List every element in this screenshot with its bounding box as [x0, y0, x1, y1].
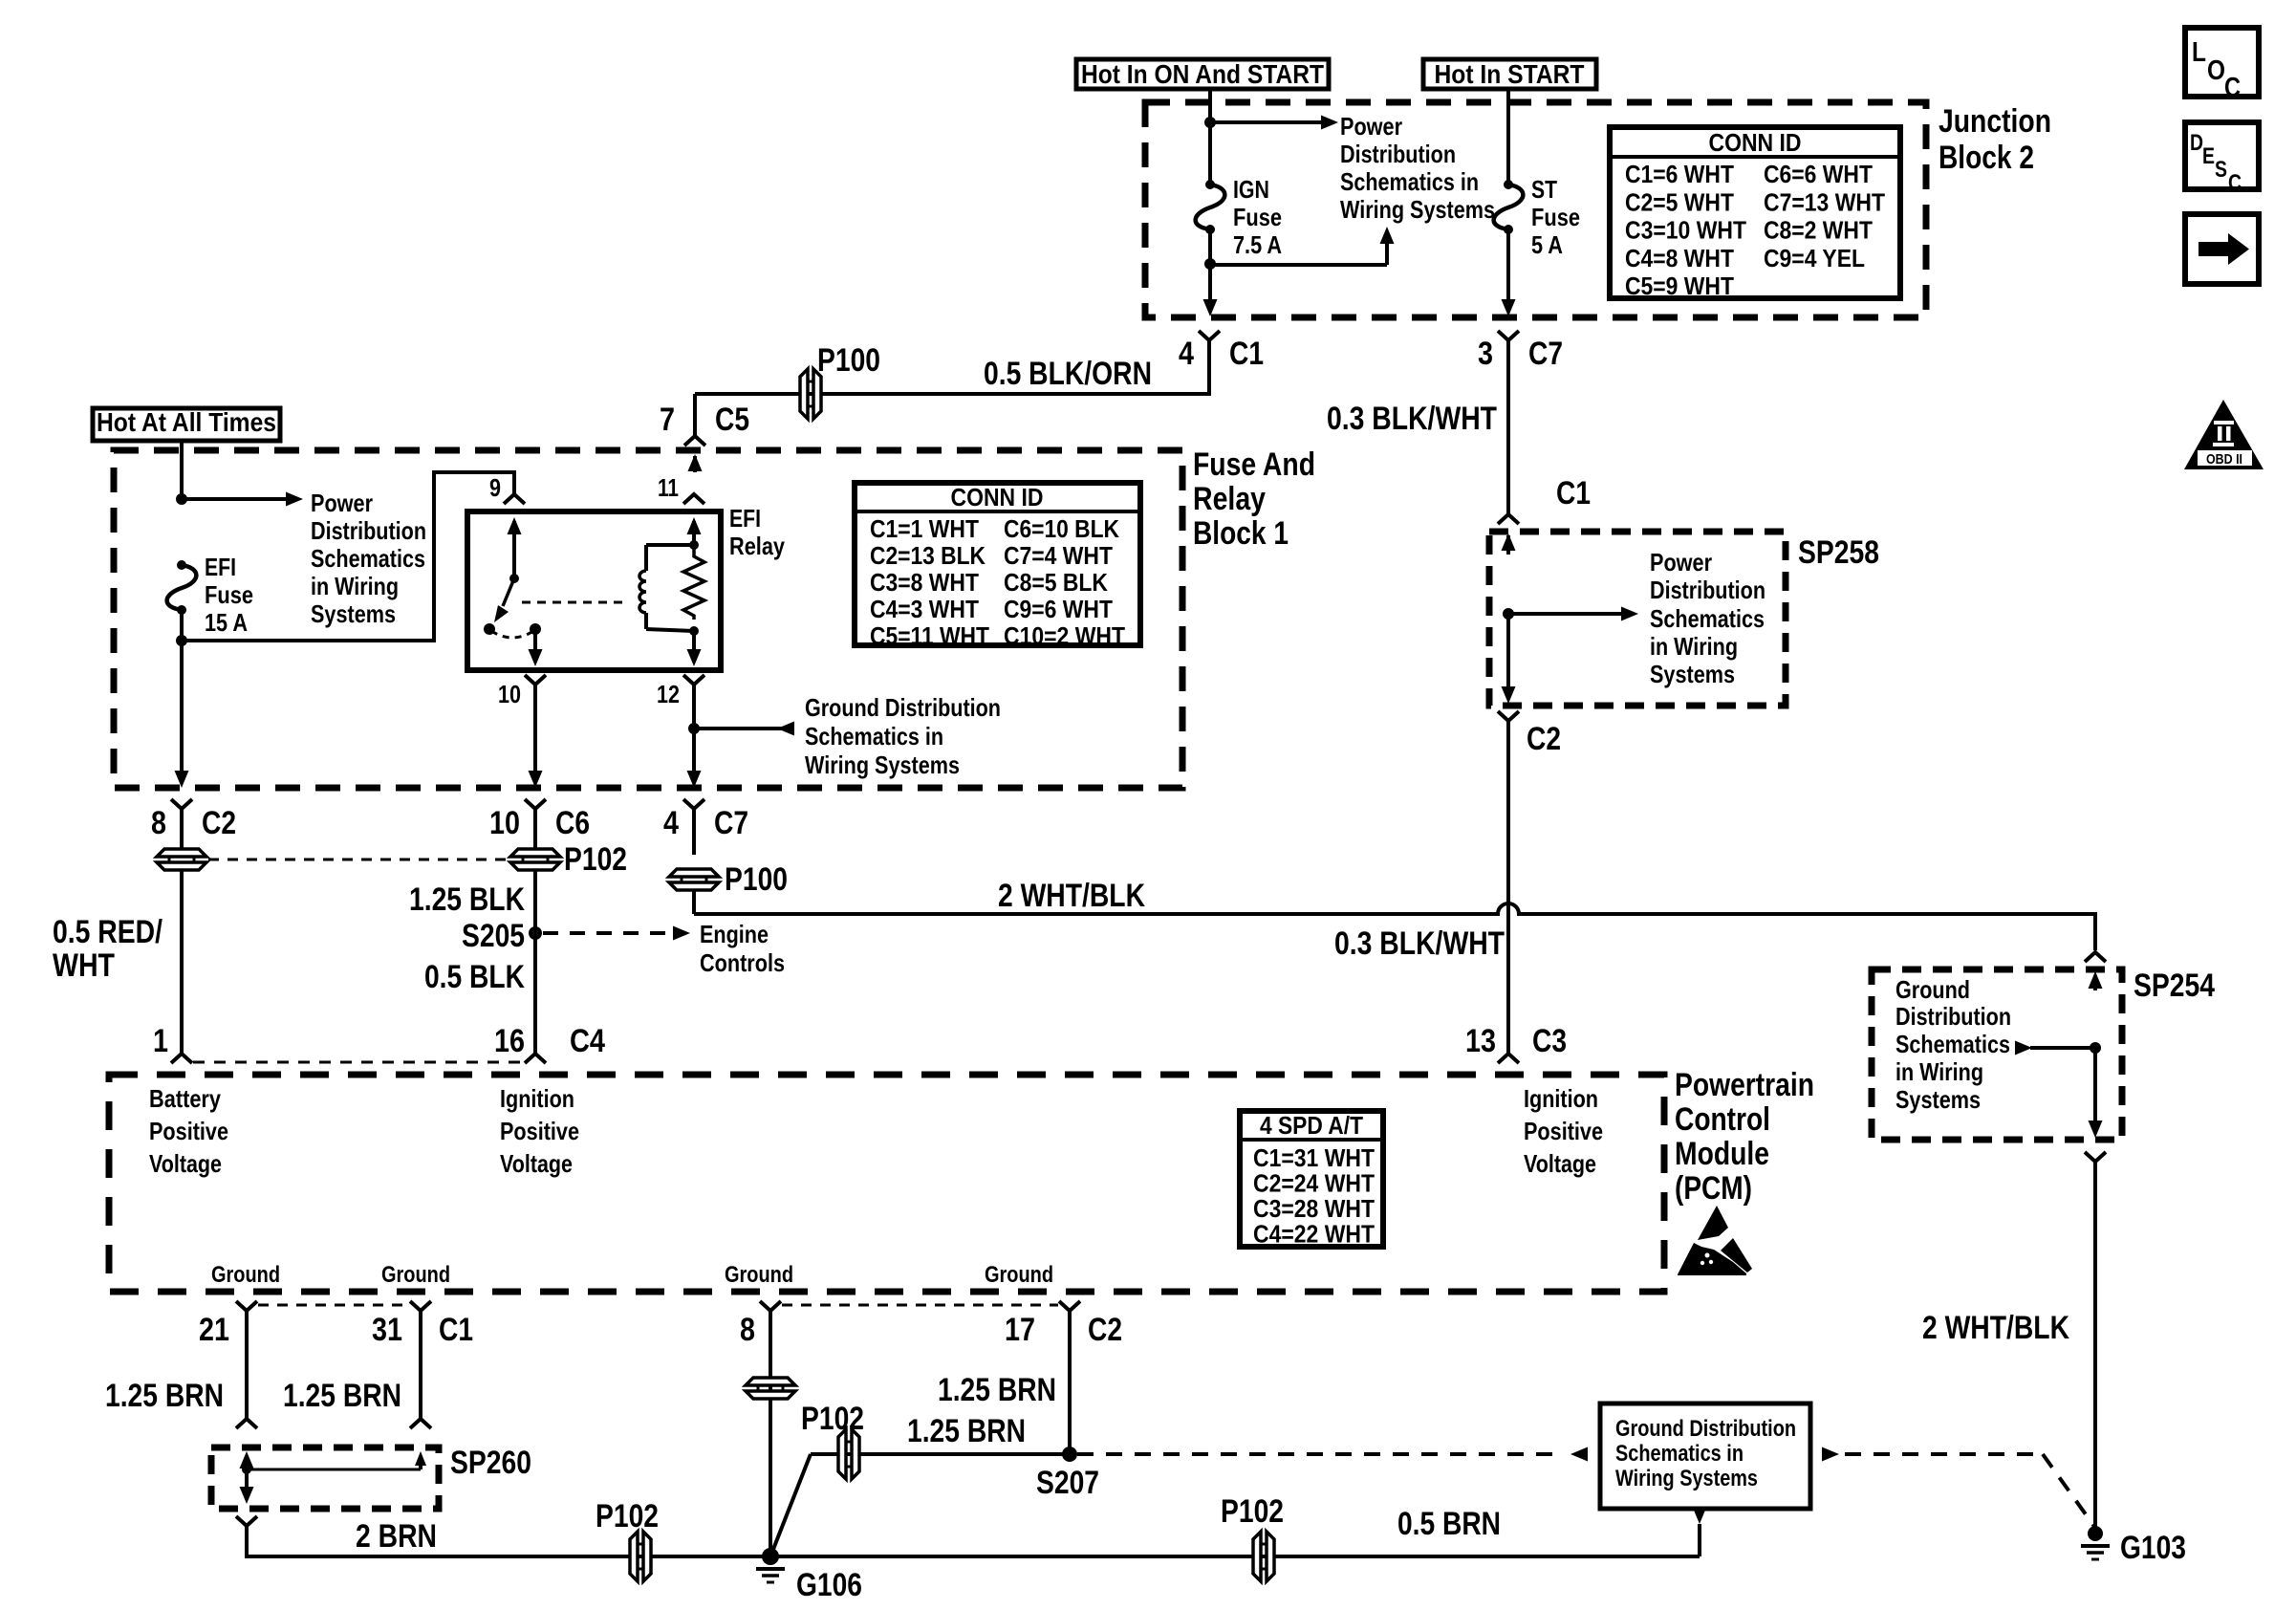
dashed pairing line 21-31 [258, 1304, 409, 1307]
svg-text:E: E [2202, 143, 2215, 169]
svg-text:C9=4 YEL: C9=4 YEL [1764, 244, 1865, 272]
ground G103 [2088, 1526, 2103, 1541]
svg-text:Fuse: Fuse [1233, 203, 1282, 231]
svg-text:C5: C5 [715, 402, 749, 438]
connector below SP260 [236, 1516, 257, 1526]
svg-text:C7=4 WHT: C7=4 WHT [1004, 541, 1113, 570]
svg-text:13: 13 [1465, 1023, 1496, 1059]
svg-text:C6=10 BLK: C6=10 BLK [1004, 514, 1119, 543]
relay switch arm with arrow [503, 578, 514, 606]
svg-text:S205: S205 [462, 918, 525, 954]
inline connector P102 (0.5 BRN run) [1253, 1532, 1261, 1581]
svg-text:Ground: Ground [985, 1262, 1053, 1288]
wire: EFI fuse output to connector C2 pin 8, arrow at block edge [180, 642, 184, 778]
wire: 0.5 BLK down to PCM pin 16 [533, 933, 537, 1053]
svg-text:ST: ST [1531, 175, 1557, 204]
inline connector P102 (2 BRN run) [630, 1532, 638, 1581]
svg-text:C1: C1 [439, 1312, 473, 1348]
svg-text:SP254: SP254 [2134, 968, 2215, 1004]
svg-text:Systems: Systems [311, 599, 396, 628]
svg-text:S: S [2215, 157, 2227, 183]
svg-text:Power: Power [1340, 112, 1402, 141]
table: CONN ID (Fuse And Relay Block 1) [855, 483, 1140, 645]
svg-text:Distribution: Distribution [1895, 1002, 2011, 1031]
svg-text:3: 3 [1478, 336, 1493, 372]
splice box SP258 dashed [1489, 532, 1786, 706]
svg-text:C5=11 WHT: C5=11 WHT [870, 621, 989, 650]
svg-text:4: 4 [1179, 336, 1194, 372]
inline connector P100 (lower) [669, 869, 719, 877]
wire: branch arrow to Power Distribution text [1210, 120, 1323, 124]
svg-text:WHT: WHT [53, 947, 115, 984]
fuse and relay block 1 dashed box [114, 450, 1182, 788]
svg-text:Schematics: Schematics [1895, 1030, 2010, 1058]
svg-text:C5=9 WHT: C5=9 WHT [1625, 272, 1734, 300]
svg-text:0.5 BLK/ORN: 0.5 BLK/ORN [984, 356, 1152, 392]
svg-text:Ignition: Ignition [1524, 1084, 1598, 1113]
wire: down and out of SP258, arrow at edge [1506, 614, 1510, 690]
dashed wire: S207 to ground distribution note [1077, 1452, 1559, 1456]
node: branch to power distribution note [1204, 117, 1216, 128]
svg-text:10: 10 [498, 680, 521, 708]
splice box SP260 dashed [211, 1447, 439, 1509]
svg-text:10: 10 [489, 805, 520, 841]
svg-text:Fuse: Fuse [205, 580, 253, 609]
svg-text:Battery: Battery [149, 1084, 221, 1113]
wire: 0.3 BLK/WHT from C7 pin 3 down to SP258 [1506, 340, 1510, 513]
svg-text:SP260: SP260 [450, 1445, 531, 1481]
svg-text:Power: Power [1650, 548, 1712, 577]
connector above SP260 (21) [236, 1419, 257, 1428]
svg-text:Voltage: Voltage [500, 1149, 573, 1178]
svg-text:0.5 BRN: 0.5 BRN [1397, 1506, 1501, 1542]
svg-text:Powertrain: Powertrain [1675, 1067, 1814, 1103]
wire: 1.25 BRN pin 31 to SP260 [419, 1311, 422, 1419]
connector C2 below SP258 [1498, 711, 1519, 721]
banner: Hot In ON And START [1076, 59, 1329, 89]
wire to inline connector P100 [692, 809, 696, 855]
svg-text:Control: Control [1675, 1101, 1770, 1138]
node: branch to EFI relay pin 9 [176, 635, 187, 646]
svg-text:C1: C1 [1229, 336, 1264, 372]
svg-text:5 A: 5 A [1531, 230, 1563, 259]
svg-text:Junction: Junction [1939, 103, 2051, 140]
icon: OBD II triangle [2184, 400, 2264, 469]
svg-text:Ground: Ground [1895, 975, 1970, 1004]
dashed pairing line pins 1-16 [193, 1061, 522, 1064]
wire: 2 WHT/BLK right side down to G103 [2093, 1162, 2097, 1534]
svg-text:0.3 BLK/WHT: 0.3 BLK/WHT [1334, 925, 1505, 962]
fuse: IGN Fuse 7.5 A [1205, 180, 1215, 189]
svg-text:G106: G106 [796, 1567, 862, 1603]
svg-text:Systems: Systems [1650, 660, 1735, 688]
svg-text:C2: C2 [202, 805, 236, 841]
svg-text:8: 8 [151, 805, 166, 841]
svg-text:C6: C6 [555, 805, 590, 841]
connector pin 17 C2 below PCM [1059, 1301, 1080, 1311]
connector 3 C7 below Junction Block 2 [1498, 331, 1519, 340]
node: splice point SP254 [2090, 1042, 2101, 1054]
arrow from note toward wire (SP258) [1621, 607, 1638, 621]
svg-text:C3: C3 [1532, 1023, 1567, 1059]
EFI relay box [467, 511, 721, 670]
svg-text:Relay: Relay [1193, 481, 1266, 517]
svg-text:Engine: Engine [700, 920, 769, 948]
svg-text:C2=5 WHT: C2=5 WHT [1625, 187, 1734, 216]
dashed pairing line between inline connectors [208, 859, 509, 861]
svg-text:2 WHT/BLK: 2 WHT/BLK [998, 878, 1145, 914]
svg-text:8: 8 [740, 1312, 755, 1348]
svg-text:C2: C2 [1527, 721, 1561, 757]
wire: pin 8 ground down to G106 [769, 1311, 772, 1556]
svg-text:Ground Distribution: Ground Distribution [805, 693, 1001, 722]
icon: DESC [2185, 122, 2259, 189]
connector above SP260 (31) [410, 1419, 431, 1428]
inline connector P102 (S207 feed) [838, 1429, 846, 1479]
svg-text:2 BRN: 2 BRN [356, 1518, 437, 1555]
svg-text:16: 16 [494, 1023, 525, 1059]
svg-text:C4=22 WHT: C4=22 WHT [1253, 1220, 1375, 1249]
connector pin 8 below PCM [760, 1301, 781, 1311]
svg-text:Controls: Controls [700, 948, 785, 977]
svg-text:EFI: EFI [729, 504, 761, 533]
connector pin 1 at PCM [171, 1054, 192, 1063]
svg-text:C1=1 WHT: C1=1 WHT [870, 514, 979, 543]
inline connector (pin 8 wire) [746, 1378, 795, 1385]
wire: coil return to pin 12, arrow at relay box edge [692, 631, 696, 650]
banner: Hot At All Times [93, 408, 280, 441]
svg-text:C8=2 WHT: C8=2 WHT [1764, 216, 1873, 245]
splice S207 [1062, 1447, 1077, 1462]
svg-text:C8=5 BLK: C8=5 BLK [1004, 568, 1108, 597]
svg-text:O: O [2207, 55, 2225, 86]
svg-text:Distribution: Distribution [1340, 140, 1456, 168]
svg-text:Ground: Ground [725, 1262, 793, 1288]
junction block 2 dashed box [1145, 102, 1926, 317]
icon: LOC [2185, 28, 2259, 97]
wire: ST fuse output, arrow at block edge [1506, 229, 1510, 302]
banner: Hot In START [1423, 59, 1596, 89]
arrow below note box to 0.5 BRN wire [1693, 1507, 1707, 1524]
node: branch to arrow pointing at note [1204, 258, 1216, 270]
connector 8 C2 below block 1 [171, 799, 192, 809]
svg-text:1.25 BRN: 1.25 BRN [907, 1413, 1026, 1449]
wire: run to relay pin 9 [182, 472, 514, 641]
svg-text:Wiring Systems: Wiring Systems [805, 751, 960, 779]
svg-text:C1=6 WHT: C1=6 WHT [1625, 160, 1734, 188]
svg-text:SP258: SP258 [1798, 534, 1879, 571]
svg-text:2 WHT/BLK: 2 WHT/BLK [1922, 1310, 2069, 1346]
svg-text:Ground Distribution: Ground Distribution [1615, 1416, 1796, 1442]
svg-text:Positive: Positive [1524, 1117, 1603, 1145]
wire: 2 BRN from SP260 to G106 run [247, 1526, 1700, 1556]
connector below SP254 [2085, 1152, 2106, 1162]
svg-text:Hot At All Times: Hot At All Times [97, 407, 276, 437]
svg-text:Schematics in: Schematics in [1340, 167, 1479, 196]
SP260 internal: arrows and bus [245, 1457, 249, 1469]
wire: 1.25 BRN pin 21 to SP260 [245, 1311, 249, 1419]
relay feed arrow inside box at pin 11 [692, 521, 696, 543]
relay pin 9 connector [504, 494, 525, 504]
wire to inline connector [533, 809, 537, 849]
svg-text:OBD II: OBD II [2206, 451, 2242, 468]
svg-text:Wiring Systems: Wiring Systems [1615, 1466, 1758, 1491]
svg-text:(PCM): (PCM) [1675, 1170, 1752, 1207]
wire: 1.25 BRN from P102 to S207 [811, 1452, 1070, 1456]
connector C1 above SP258 [1498, 514, 1519, 524]
svg-text:P100: P100 [817, 342, 880, 379]
inline connector P100 (top) [800, 369, 808, 419]
svg-text:C3=28 WHT: C3=28 WHT [1253, 1194, 1375, 1223]
arrow entering Fuse And Relay Block 1 at C5 [693, 456, 697, 472]
inline connector P102 [510, 849, 560, 857]
svg-text:0.5 RED/: 0.5 RED/ [53, 914, 162, 950]
wire: 0.5 BRN from P102 to note box riser [1264, 1555, 1700, 1558]
svg-text:11: 11 [658, 473, 679, 502]
svg-text:0.5 BLK: 0.5 BLK [424, 959, 525, 995]
svg-text:Module: Module [1675, 1136, 1769, 1172]
dashed wire: note to G103 [1822, 1447, 1839, 1462]
wire: IGN fuse output [1208, 229, 1212, 262]
connector pin 21 below PCM [236, 1301, 257, 1311]
relay pin 11 connector [683, 494, 704, 504]
svg-text:7.5 A: 7.5 A [1233, 230, 1282, 259]
connector pin 31 C1 below PCM [410, 1301, 431, 1311]
svg-text:C2: C2 [1088, 1312, 1122, 1348]
wire: EFI fuse feed [180, 441, 184, 497]
relay coil [689, 540, 699, 550]
relay switch pivot node [509, 574, 519, 583]
svg-text:Distribution: Distribution [311, 516, 426, 545]
svg-text:L: L [2192, 37, 2206, 68]
svg-text:CONN ID: CONN ID [1709, 128, 1802, 157]
connector above SP254 [2085, 952, 2106, 962]
splice S205 [529, 926, 542, 940]
wire: 1.25 BLK down to splice S205 [533, 870, 537, 933]
arrow entering SP254 [2093, 975, 2097, 990]
svg-text:21: 21 [199, 1312, 229, 1348]
table: 4 SPD A/T [1240, 1111, 1383, 1247]
svg-text:17: 17 [1005, 1312, 1035, 1348]
svg-text:P102: P102 [596, 1498, 659, 1534]
node: branch to power distribution note [176, 493, 187, 505]
svg-text:C3=8 WHT: C3=8 WHT [870, 568, 979, 597]
svg-text:Ignition: Ignition [500, 1084, 574, 1113]
svg-text:Hot In ON And START: Hot In ON And START [1081, 59, 1324, 89]
wire: down to connector C1 pin 4, arrow at block edge [1208, 266, 1212, 302]
svg-text:Distribution: Distribution [1650, 576, 1765, 604]
table: CONN ID (Junction Block 2) [1610, 127, 1900, 298]
fuse: ST Fuse 5 A [1504, 180, 1513, 189]
svg-text:S207: S207 [1036, 1465, 1099, 1501]
wire: ST fuse feed from Hot In START [1506, 89, 1510, 183]
svg-text:Power: Power [311, 489, 373, 517]
svg-text:C4: C4 [570, 1023, 605, 1059]
connector 4 C7 below block 1 [683, 799, 704, 809]
wire: pin 10 to connector C6, arrow at block edge [533, 685, 537, 778]
ground G106 [762, 1548, 779, 1565]
svg-text:C: C [2224, 73, 2241, 103]
svg-text:Ground: Ground [211, 1262, 280, 1288]
arrow from note toward wire (SP254) [2015, 1041, 2032, 1055]
svg-text:P102: P102 [564, 841, 627, 878]
svg-text:Fuse And: Fuse And [1193, 446, 1315, 483]
svg-text:Schematics: Schematics [311, 544, 425, 573]
svg-text:C7=13 WHT: C7=13 WHT [1764, 187, 1885, 216]
svg-text:Block 2: Block 2 [1939, 140, 2034, 176]
wire: branch arrow to Power Distribution text [182, 497, 290, 501]
svg-text:in Wiring: in Wiring [1650, 632, 1738, 661]
svg-text:Relay: Relay [729, 532, 785, 560]
svg-text:7: 7 [660, 402, 675, 438]
connector 4 C1 below Junction Block 2 [1199, 331, 1220, 340]
arrow entering SP258 [1506, 535, 1510, 555]
svg-text:Voltage: Voltage [149, 1149, 222, 1178]
svg-text:C7: C7 [1528, 336, 1563, 372]
svg-text:Positive: Positive [500, 1117, 579, 1145]
wire: pin 12 down [692, 685, 696, 727]
svg-text:1.25 BRN: 1.25 BRN [283, 1378, 401, 1414]
svg-text:C10=2 WHT: C10=2 WHT [1004, 621, 1125, 650]
wire: 0.5 BLK/ORN from C1 pin 4 to P100 and C5 pin 7 [695, 340, 1209, 394]
relay switch feed arrow from pin 9 [512, 521, 516, 577]
svg-text:31: 31 [372, 1312, 402, 1348]
wire: 2 WHT/BLK long run to right side [692, 890, 696, 914]
svg-text:9: 9 [489, 473, 501, 502]
wire: relay output to pin 10, arrow at relay box edge [533, 629, 537, 650]
svg-text:Wiring Systems: Wiring Systems [1340, 195, 1495, 224]
svg-text:C3=10 WHT: C3=10 WHT [1625, 216, 1746, 245]
svg-text:Fuse: Fuse [1531, 203, 1580, 231]
svg-text:P100: P100 [725, 861, 788, 898]
wire: IGN fuse feed from Hot In ON And START [1208, 89, 1212, 183]
svg-text:Positive: Positive [149, 1117, 228, 1145]
wire: 0.5 RED/WHT down to PCM pin 1 [180, 870, 184, 1053]
svg-text:CONN ID: CONN ID [951, 483, 1044, 511]
wire: 0.3 BLK/WHT down to PCM pin 13 (crosses 2 WHT/BLK) [1506, 721, 1510, 1053]
relay switch travel dashed arc [491, 631, 533, 638]
svg-text:EFI: EFI [205, 553, 236, 581]
connector 7 C5 above Fuse And Relay Block 1 [684, 436, 705, 446]
ESD sensitive device symbol [1698, 1206, 1728, 1240]
svg-text:Schematics: Schematics [1650, 604, 1765, 633]
relay pin 10 connector [525, 675, 546, 685]
relay output contact node [530, 623, 541, 635]
svg-text:Schematics in: Schematics in [805, 722, 943, 751]
wire: EFI fuse output down [180, 610, 184, 639]
node: branch to ground distribution note [688, 723, 700, 734]
svg-text:Ground: Ground [381, 1262, 450, 1288]
wire: down to connector C5 pin 7 [693, 394, 697, 436]
connector 10 C6 below block 1 [525, 799, 546, 809]
svg-text:C4=8 WHT: C4=8 WHT [1625, 244, 1734, 272]
wire: diagonal from P102 feed down to G106 [770, 1454, 811, 1556]
relay mechanical link dashed line [522, 601, 627, 604]
wire: branch with left arrow toward wire [777, 722, 794, 736]
svg-text:C1=31 WHT: C1=31 WHT [1253, 1143, 1375, 1172]
svg-text:C7: C7 [714, 805, 748, 841]
wire: down out of SP254, arrow at edge [2093, 1048, 2097, 1124]
svg-text:in Wiring: in Wiring [1895, 1057, 1983, 1086]
svg-text:Schematics in: Schematics in [1615, 1441, 1744, 1467]
svg-text:Hot In START: Hot In START [1435, 59, 1585, 89]
relay switch common contact node [484, 623, 495, 635]
svg-text:C6=6 WHT: C6=6 WHT [1764, 160, 1873, 188]
svg-text:P102: P102 [1221, 1493, 1284, 1530]
dashed pairing line 8-17 [782, 1304, 1058, 1307]
svg-text:12: 12 [657, 680, 680, 708]
svg-text:1.25 BRN: 1.25 BRN [105, 1378, 224, 1414]
svg-text:4: 4 [663, 805, 679, 841]
svg-text:1.25 BRN: 1.25 BRN [938, 1372, 1056, 1408]
icon: forward arrow [2185, 214, 2259, 284]
splice box SP254 dashed [1872, 969, 2122, 1140]
relay coil suppression resistor [683, 547, 704, 620]
svg-text:Voltage: Voltage [1524, 1149, 1596, 1178]
dashed reference arrow to Engine Controls [543, 931, 671, 935]
fuse: EFI Fuse 15 A [177, 560, 186, 570]
wire: pin 12 to connector C7, arrow at block edge [692, 729, 696, 778]
wire to inline connector [180, 809, 184, 849]
node: splice point in SP258 [1503, 608, 1514, 620]
svg-text:C1: C1 [1556, 475, 1591, 511]
connector pin 13 C3 at PCM [1498, 1054, 1519, 1063]
svg-text:C4=3 WHT: C4=3 WHT [870, 595, 979, 623]
svg-text:Systems: Systems [1895, 1085, 1981, 1114]
connector pin 16 C4 at PCM [525, 1054, 546, 1063]
svg-text:0.3 BLK/WHT: 0.3 BLK/WHT [1327, 401, 1497, 437]
svg-text:in Wiring: in Wiring [311, 572, 399, 600]
relay pin 12 connector [683, 675, 704, 685]
note box: Ground Distribution Schematics in Wiring Systems [1600, 1403, 1810, 1509]
svg-text:1.25 BLK: 1.25 BLK [409, 881, 525, 918]
svg-text:Block 1: Block 1 [1193, 515, 1289, 552]
wire: branch with up arrow at note [1210, 263, 1387, 267]
svg-text:P102: P102 [801, 1401, 864, 1437]
svg-text:C2=24 WHT: C2=24 WHT [1253, 1169, 1375, 1198]
svg-text:15 A: 15 A [205, 608, 248, 637]
svg-text:IGN: IGN [1233, 175, 1269, 204]
svg-text:D: D [2190, 130, 2203, 156]
svg-text:C: C [2228, 170, 2242, 196]
svg-text:C2=13 BLK: C2=13 BLK [870, 541, 986, 570]
PCM dashed box [109, 1075, 1664, 1292]
inline connector (C2 half, pairs with P102) [157, 849, 206, 857]
svg-text:1: 1 [153, 1023, 168, 1059]
svg-text:G103: G103 [2120, 1530, 2186, 1566]
svg-text:4 SPD A/T: 4 SPD A/T [1260, 1111, 1363, 1140]
svg-text:C9=6 WHT: C9=6 WHT [1004, 595, 1113, 623]
wire: 1.25 BRN pin 17 down to splice S207 [1068, 1311, 1072, 1454]
